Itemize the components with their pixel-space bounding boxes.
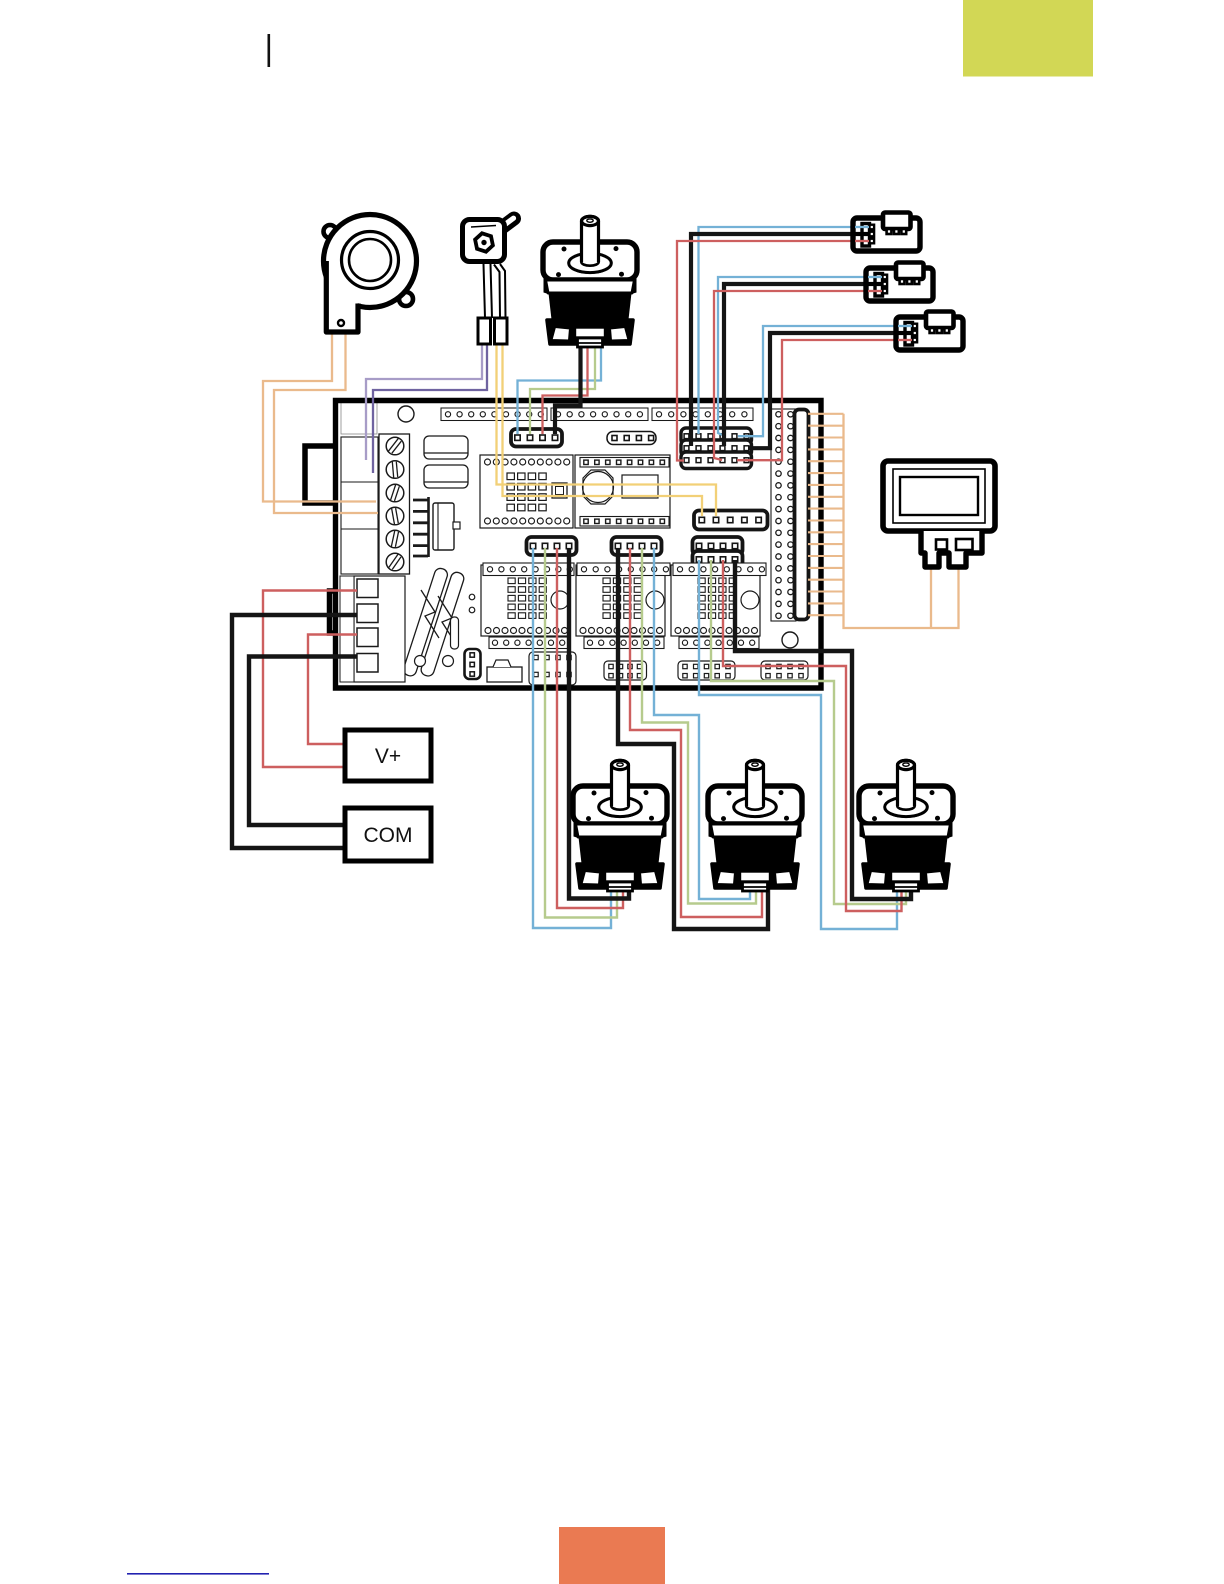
- header E0-motor (4-pin): [511, 429, 562, 447]
- power input terminal: [354, 576, 405, 682]
- wire endstop3 black: [748, 333, 896, 448]
- footer link underline: [127, 1573, 269, 1575]
- reset button SW1: [415, 656, 426, 667]
- endstop switch ES1: [853, 213, 920, 252]
- wire endstop1 red: [677, 241, 853, 461]
- wire endstop3 red: [737, 340, 896, 460]
- wire endstop2 black: [724, 284, 866, 446]
- header Z-motor (4-pin x2): [693, 537, 743, 555]
- LCD display U3: [883, 461, 995, 531]
- wire thermistor dark purple: [373, 344, 487, 473]
- wire endstop3 blue: [738, 326, 896, 436]
- wire E0 motor green: [530, 346, 595, 434]
- stepper driver socket Z: [671, 565, 760, 636]
- endstop switch ES3: [896, 312, 963, 351]
- stepper driver socket A1: [480, 455, 573, 528]
- power connector shell: [340, 576, 354, 682]
- header block aux-1: [604, 661, 647, 680]
- wire X motor blue: [533, 548, 611, 928]
- wire X motor red: [557, 548, 623, 908]
- wire Z motor red: [723, 560, 902, 911]
- stepper driver socket Y: [576, 565, 665, 636]
- pin row top-1: [441, 408, 547, 421]
- wire thermistor light purple: [366, 344, 482, 460]
- fuses F1 F2: [402, 567, 465, 678]
- capacitors C1 C2: [424, 436, 468, 459]
- wire V+ red outer: [263, 591, 357, 768]
- wire Z motor green: [711, 560, 906, 904]
- wire endstop2 red: [714, 291, 866, 460]
- header servo (4-pin thin): [607, 432, 656, 445]
- power screw terminal block: [379, 434, 410, 574]
- wire E0 motor red: [543, 346, 588, 434]
- wire heater yellow 2: [503, 344, 703, 516]
- wire COM black inner: [249, 657, 357, 826]
- wire heater yellow 1: [497, 344, 717, 516]
- header endstops (3x6): [681, 428, 752, 445]
- header block aux-3: [761, 661, 808, 680]
- stepper driver socket A2: [575, 455, 670, 528]
- pin row top-2: [551, 408, 648, 421]
- endstop switch ES2: [866, 263, 933, 302]
- svg-text:COM: COM: [364, 824, 413, 847]
- wire Y motor green: [642, 548, 756, 904]
- svg-text:V+: V+: [375, 745, 401, 768]
- stepper motor X: [573, 760, 667, 891]
- wire Y motor blue: [654, 548, 750, 899]
- header Y-motor (4-pin): [612, 537, 662, 555]
- wire fan-B tan: [274, 334, 378, 513]
- wire Z motor blue: [699, 560, 897, 929]
- wire LCD ribbon stubs: [808, 414, 844, 615]
- wire X motor green: [545, 548, 617, 918]
- text cursor bar: [268, 34, 271, 67]
- header X-motor (4-pin): [527, 537, 577, 555]
- wire X motor black: [569, 548, 629, 899]
- blower fan FAN1: [324, 225, 337, 238]
- orange footer block: [559, 1527, 665, 1584]
- wire LCD leg left: [930, 565, 932, 628]
- pin row mid-2: [577, 563, 670, 576]
- input shell upper: [341, 400, 377, 434]
- hotend HE1: [500, 219, 514, 230]
- header heater-out (5-pin): [694, 511, 768, 530]
- pin row mid-3: [673, 563, 766, 576]
- wire V+ red inner: [308, 635, 357, 745]
- pin row top-3: [652, 408, 753, 421]
- RAMPS board outline: [336, 401, 822, 689]
- header block D-outputs: [529, 652, 576, 685]
- edge connector J-EXT: [795, 410, 809, 620]
- wire fan-A tan: [263, 334, 376, 502]
- stepper motor Z: [859, 760, 953, 891]
- wire Z motor black: [735, 560, 911, 899]
- stepper motor Y: [708, 760, 802, 891]
- AUX pad columns: [771, 409, 796, 621]
- wire endstop1 blue: [699, 227, 854, 434]
- stepper motor E0: [543, 216, 637, 347]
- misc passives: [469, 594, 475, 600]
- header ICSP (1x3): [465, 649, 481, 679]
- heatsink + regulator U2: [427, 497, 430, 557]
- lime highlight block: [963, 0, 1093, 77]
- wire endstop2 blue: [718, 277, 866, 435]
- wire Y motor black: [618, 548, 768, 929]
- wire LCD ribbon bus: [844, 414, 959, 628]
- stepper driver socket X: [481, 565, 570, 636]
- wire endstop1 black: [691, 234, 853, 446]
- wire Y motor red: [630, 548, 762, 917]
- terminal COM: [345, 808, 431, 861]
- wire E0 motor black: [555, 346, 581, 434]
- wire E0 motor blue: [518, 346, 602, 434]
- wire COM black outer: [232, 615, 357, 848]
- header block aux-2: [678, 661, 735, 680]
- terminal V+: [345, 730, 431, 781]
- pin row mid-1: [483, 563, 574, 576]
- board mounting holes: [398, 406, 414, 422]
